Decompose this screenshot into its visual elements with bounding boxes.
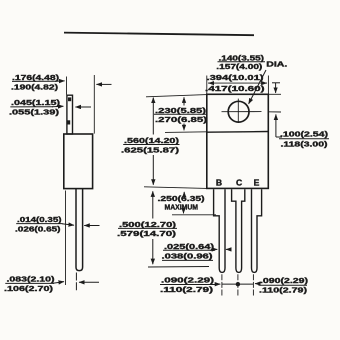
dim 250 down arrow [183,211,185,214]
dim text .045(1.15)/.055(1.39) [9,98,61,116]
body bottom ext line [144,187,207,189]
lead B [214,189,225,272]
shaft B to E [222,283,253,285]
dim line 500 upper arrow [152,191,154,196]
center dot at C [236,282,240,286]
lead C [232,189,245,272]
elbow to text [276,136,282,138]
svg-text:.038(0.96): .038(0.96) [162,252,214,261]
svg-text:.100(2.54): .100(2.54) [280,130,329,139]
svg-text:.625(15.87): .625(15.87) [121,145,180,154]
svg-text:.579(14.70): .579(14.70) [117,229,177,238]
svg-text:.090(2.29): .090(2.29) [260,276,309,285]
svg-text:.417(10.60): .417(10.60) [205,84,265,93]
width ext left [206,76,208,95]
extension line front face [93,75,95,134]
right .090(2.29)/.110(2.79) [259,276,309,295]
hole dia text .140(3.55)/.157(4.00) DIA. [216,54,287,72]
tab line ext left [165,131,207,134]
svg-text:.110(2.79): .110(2.79) [160,285,214,294]
arrow to body back face [55,80,65,82]
tab hole mark upper [68,97,71,101]
arrow to back face ext [53,282,64,284]
extension line for lead offset dim [65,191,67,286]
dim line 230: upper seg w/ up arrow [183,97,185,105]
shoulder step ext line [172,214,216,216]
svg-text:.176(4.48): .176(4.48) [12,73,60,82]
width arrow right [263,82,267,84]
body top ext right [268,93,281,95]
top tick [272,82,280,84]
tab/plastic boundary line [207,131,268,134]
svg-text:.118(3.00): .118(3.00) [281,140,329,149]
width arrow left [209,82,213,84]
arrow from right to front face ext [96,83,111,85]
dim .560(14.20)/.625(15.87) [121,136,180,154]
extension line below side lead [75,273,77,293]
width dim .394(10.01)/.417(10.60) [205,73,265,93]
svg-text:.110(2.79): .110(2.79) [259,286,308,295]
svg-text:E: E [254,177,260,187]
dim line 500 lower seg [152,239,154,264]
ext line B center [221,274,223,295]
svg-text:.500(12.70): .500(12.70) [119,220,177,229]
dim line 560 lower seg [152,155,154,185]
dim line 560 upper seg [152,98,154,135]
svg-text:.560(14.20): .560(14.20) [124,136,180,145]
down arrow to body top [275,83,277,93]
lead E [252,189,262,272]
dim text .014(0.35)/.026(0.65) [15,215,63,234]
svg-text:.230(5.85): .230(5.85) [155,106,207,115]
body outline [207,94,268,188]
svg-text:.055(1.39): .055(1.39) [9,107,60,116]
svg-text:MAXIMUM: MAXIMUM [165,203,199,212]
svg-text:.045(1.15): .045(1.15) [11,98,61,107]
body (side view) [64,134,93,189]
svg-text:.083(2.10): .083(2.10) [7,275,56,284]
body top ext line left [146,95,207,97]
top rule [64,33,254,36]
svg-text:.106(2.70): .106(2.70) [4,284,54,293]
svg-text:B: B [216,177,222,187]
width ext right [267,76,269,95]
dim .230(5.85)/.270(6.85) [154,106,208,124]
left .090(2.29)/.110(2.79) [160,276,215,295]
mounting hole [228,101,249,122]
hole horizontal centerline [222,111,262,113]
svg-text:.157(4.00): .157(4.00) [216,62,263,71]
up arrow to centerline [275,114,277,137]
arrow to tab right face [75,106,91,108]
svg-text:.190(4.82): .190(4.82) [11,83,59,92]
dim 250 up arrow [183,192,185,196]
arrow to lead B left [214,248,217,250]
svg-text:.026(0.65): .026(0.65) [15,225,61,234]
tab hole mark lower [67,120,70,124]
arrow to lead right face [84,225,99,227]
svg-text:C: C [236,177,242,187]
svg-text:DIA.: DIA. [266,60,287,69]
lead (side view) [76,189,83,271]
svg-text:.270(6.85): .270(6.85) [155,115,208,124]
arrow to tab left face [52,105,63,107]
arrow to E center [255,283,260,285]
arrow to B center [215,283,221,285]
arrow to lead left face [62,224,74,225]
svg-text:.394(10.01): .394(10.01) [207,73,265,82]
dim .025(0.64)/.038(0.96) [162,242,216,261]
svg-text:.090(2.29): .090(2.29) [161,276,215,285]
ext line E center [252,274,254,296]
tab (side view) [67,95,73,134]
lead tip ext line [148,266,209,269]
extension line back face [66,77,68,95]
leader arrow to hole [249,70,266,104]
arrow to lead B right [226,248,232,250]
dim line 500 mid seg [152,194,154,219]
dim text .176(4.48)/.190(4.82) [11,73,60,92]
svg-text:.014(0.35): .014(0.35) [17,215,62,224]
svg-text:.025(0.64): .025(0.64) [164,242,215,251]
hole centerline ext right [268,111,281,113]
dim line 230: lower seg w/ down arrow [183,124,185,131]
arrow to lead right face [79,281,99,283]
ext line C center [237,274,239,296]
dim text .083(2.10)/.106(2.70) [4,275,55,294]
hole vertical centerline [237,99,239,123]
dim .500(12.70)/.579(14.70) [117,220,177,238]
dim .250(6.35) MAXIMUM [158,194,206,212]
